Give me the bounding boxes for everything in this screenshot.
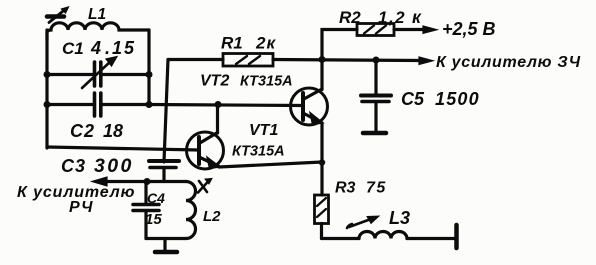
- svg-text:+2,5 В: +2,5 В: [442, 19, 496, 39]
- svg-text:1500: 1500: [435, 89, 480, 109]
- wire: tank left rail: [45, 30, 48, 148]
- node dot (376,60): [373, 57, 380, 64]
- L3 adjustment arrow: [349, 219, 371, 227]
- wire: tank bottom rail / VT1 base lead: [47, 147, 199, 150]
- node dot (322,59.5): [319, 56, 326, 63]
- wire: VT2 collector up: [320, 60, 323, 90]
- capacitor C3: [149, 159, 179, 163]
- svg-text:18: 18: [103, 121, 123, 141]
- L1 adjustment arrow: [47, 14, 64, 19]
- capacitor C4: [144, 182, 147, 204]
- node dot (47,74.5): [44, 71, 51, 78]
- node dot (322,162.5) emitter junction: [319, 159, 325, 165]
- ground (L2): [163, 239, 166, 251]
- resistor R3: [320, 163, 323, 196]
- svg-text:КТ315А: КТ315А: [232, 144, 285, 160]
- svg-text:VT2: VT2: [200, 73, 229, 90]
- svg-text:VT1: VT1: [249, 122, 278, 139]
- capacitor C1 (variable): [47, 73, 94, 76]
- svg-text:С5: С5: [401, 89, 425, 109]
- svg-text:C1: C1: [62, 39, 84, 58]
- svg-text:15: 15: [145, 211, 162, 228]
- svg-text:L1: L1: [88, 6, 106, 23]
- wire: C4/L2 top rail: [146, 180, 186, 183]
- capacitor C5: [374, 60, 377, 94]
- node dot (47,104.5): [44, 101, 51, 108]
- wire: base line of VT2 (from tank to VT2): [149, 105, 303, 106]
- transistor VT1: [187, 132, 224, 169]
- svg-text:4: 4: [90, 38, 101, 58]
- inductor L1: [47, 23, 149, 40]
- svg-text:2к: 2к: [255, 34, 276, 53]
- terminal bar: [454, 225, 459, 248]
- svg-text:КТ315А: КТ315А: [240, 74, 293, 90]
- wire: R1 branch vertical (R1 to C3): [164, 60, 168, 163]
- node dot (149,104.5): [146, 101, 153, 108]
- svg-text:L3: L3: [389, 208, 410, 228]
- resistor R2: [322, 30, 357, 60]
- svg-text:С4: С4: [147, 190, 165, 206]
- node dot (147,181.5): [144, 178, 151, 185]
- svg-text:C3: C3: [61, 156, 86, 176]
- output arrow to RF amplifier: [105, 180, 146, 183]
- transistor VT2: [291, 88, 328, 125]
- output arrow to AF amplifier: [419, 57, 433, 65]
- svg-text:C2: C2: [70, 121, 95, 141]
- node dot (149,74.5): [146, 71, 153, 78]
- ground (C5): [363, 131, 386, 136]
- wire: tank right rail: [147, 30, 150, 105]
- inductor L3: [322, 237, 360, 240]
- capacitor C2: [47, 103, 94, 106]
- wire: VT1 emitter line to R3 node: [219, 162, 322, 167]
- svg-text:К усилителю ЗЧ: К усилителю ЗЧ: [436, 54, 581, 71]
- L2 adjustment mark: [198, 181, 209, 193]
- svg-text:R2: R2: [339, 8, 361, 27]
- wire: C4/L2 bottom rail: [146, 237, 186, 240]
- resistor R1: [168, 58, 223, 61]
- svg-text:R1: R1: [221, 34, 243, 53]
- wire: VT1 collector up to base line: [216, 105, 219, 134]
- inductor L2: [186, 182, 196, 239]
- svg-text:75: 75: [366, 180, 387, 197]
- svg-text:.15: .15: [105, 38, 136, 58]
- wire: VT2 emitter down: [320, 123, 323, 163]
- svg-text:300: 300: [94, 155, 134, 177]
- svg-text:R3: R3: [335, 180, 356, 197]
- +2,5V arrow: [423, 26, 437, 33]
- svg-text:1,2: 1,2: [378, 8, 406, 27]
- svg-text:к: к: [412, 7, 422, 27]
- node dot (218,104.5): [215, 101, 222, 108]
- svg-text:L2: L2: [203, 208, 221, 225]
- svg-text:РЧ: РЧ: [69, 199, 94, 216]
